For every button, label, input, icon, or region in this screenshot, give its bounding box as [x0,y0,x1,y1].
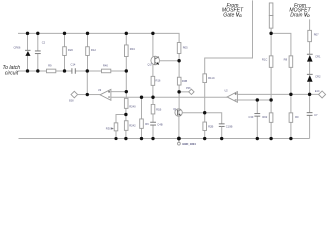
resistor R8 [284,56,293,68]
connector E08 [69,91,87,102]
svg-text:R1B: R1B [156,108,161,112]
resistor R1B [151,104,161,114]
resistor R30B [106,123,118,131]
resistor R40 [102,64,111,73]
wire U2 minus input line [237,99,271,101]
diode CR06 [14,46,31,56]
svg-text:R8: R8 [284,58,288,62]
wire R11C down to base node [204,83,206,113]
svg-text:C10B: C10B [226,124,233,128]
svg-text:R0B: R0B [182,79,187,83]
resistor R02 [262,113,273,123]
svg-text:Gate VG: Gate VG [223,13,242,19]
svg-text:GND_1804: GND_1804 [182,142,196,146]
connector P06 [186,87,194,95]
resistor pair input divider top [269,3,273,28]
wire R05 column [178,53,180,109]
resistor R12 [86,47,97,56]
svg-text:Q17: Q17 [148,64,153,67]
svg-text:R11C: R11C [208,76,215,80]
svg-text:R9: R9 [48,64,52,68]
svg-text:CR2: CR2 [315,75,321,79]
svg-text:C3F: C3F [248,115,253,119]
resistor R242 [124,121,136,131]
svg-text:Q1: Q1 [173,108,177,111]
svg-text:E10: E10 [315,90,320,93]
resistor R0 [289,113,299,123]
svg-text:R6: R6 [145,122,149,126]
svg-text:R40: R40 [103,64,108,68]
svg-text:circuit: circuit [5,71,19,77]
wire drain jog [271,33,291,56]
wire Q17 collector to R05 node [159,60,179,62]
resistor R11C [203,74,215,83]
resistor R04 [125,45,136,57]
svg-text:C14: C14 [71,63,76,67]
svg-text:CR1: CR1 [315,55,321,59]
wire U9 minus input line (to U2 output) [111,96,227,98]
wire base node to R2B [204,113,206,139]
wire gate input from top [205,0,253,74]
resistor R0B [177,77,187,85]
resistor R240 [124,98,136,108]
svg-text:C2: C2 [42,41,46,45]
wire R20 column [64,33,66,71]
wire diode node to C7 [309,94,311,138]
svg-text:R05: R05 [183,46,188,50]
svg-text:R16: R16 [156,79,161,83]
svg-text:R1C: R1C [262,58,267,62]
svg-text:E08: E08 [69,100,74,103]
svg-text:C4B: C4B [157,123,162,127]
node junction dots bottom rail [114,137,292,141]
wire U9 plus input line [111,91,126,93]
wire Q17 column [152,33,154,97]
wire zener column [27,33,29,71]
svg-text:R242: R242 [129,124,136,128]
svg-text:U2: U2 [225,89,229,92]
wire top rail [18,33,179,42]
svg-text:R02: R02 [262,115,267,119]
svg-text:R20: R20 [68,48,73,52]
op-amp U9 [98,89,111,100]
resistor R1C [262,56,273,68]
capacitor C3F [248,114,260,119]
wire R04 column [125,33,127,91]
capacitor C14 [71,63,76,74]
wire C2 column [37,33,39,71]
connector E10 [310,90,326,98]
wire Q11 base line [182,113,221,124]
wire C10B to rail [221,126,223,138]
node junction dots mid rail [26,69,128,72]
transistor Q11 [173,108,182,116]
resistor R6 [140,119,150,128]
resistor R16 [151,76,161,85]
node From MOSFET Drain VD [289,3,311,19]
wire x87 column [86,71,88,95]
transistor Q17 [148,56,160,66]
wire U2 plus input line to diode node [237,93,309,95]
capacitor C10B [219,124,233,129]
svg-text:Drain VD: Drain VD [290,13,310,19]
svg-text:CR06: CR06 [14,46,21,50]
wire R12 column [87,33,89,71]
ground GND_1804 [178,139,197,147]
resistor R05 [177,43,188,54]
resistor R9 [47,64,56,73]
wire R240 column [125,92,127,139]
svg-text:R2B: R2B [208,125,213,129]
resistor R20 [63,47,74,56]
diode CR1 [307,54,321,61]
wire drain diode column top [309,19,311,94]
capacitor C2 [35,41,46,54]
svg-text:R04: R04 [130,47,135,51]
capacitor C7 [307,113,318,117]
resistor R07 [308,30,319,41]
wire Q11 column [178,109,180,139]
wire U9 output [87,94,100,96]
svg-text:U9: U9 [98,89,102,92]
svg-text:C7: C7 [314,113,318,117]
wire node A right line to P06 [179,91,189,93]
op-amp U2 [225,89,238,102]
node From MOSFET Gate VG [222,3,244,19]
node junction dots middle [86,59,312,116]
node junction dots top rail [26,32,273,35]
wire R30B branch [116,114,126,138]
svg-text:R240: R240 [129,105,136,109]
wire drain sense column [270,28,272,100]
wire R8 to plus line [290,67,292,94]
diode CR2 [307,74,321,81]
wire R0 column [290,94,292,138]
wire R1B to C4B [152,97,154,138]
wire R02 column [270,100,272,139]
wire bottom rail [19,138,310,140]
wire mid rail to latch [18,70,126,72]
resistor R2B [203,122,214,130]
svg-text:R07: R07 [314,33,319,37]
svg-text:R0: R0 [295,115,299,119]
svg-text:R12: R12 [91,48,96,52]
wire R6 column [141,97,143,138]
wire C3F column [256,100,258,139]
capacitor C4B [150,122,163,127]
svg-text:P06: P06 [186,87,191,90]
